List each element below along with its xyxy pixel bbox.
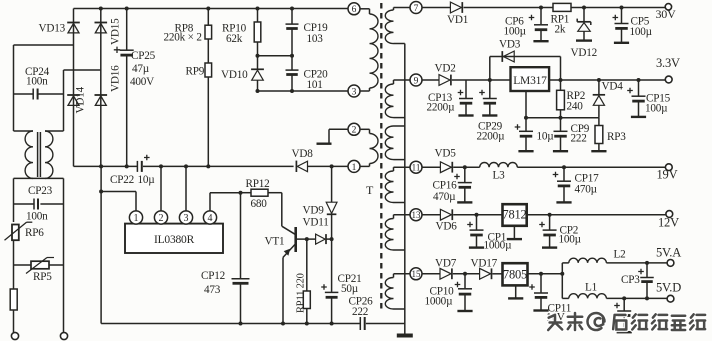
capacitor CP11 <box>539 272 543 276</box>
svg-text:CP22: CP22 <box>110 174 134 186</box>
capacitor CP20 <box>286 69 299 71</box>
svg-text:LM317: LM317 <box>513 75 547 87</box>
svg-text:100µ: 100µ <box>630 26 653 38</box>
svg-text:VD16: VD16 <box>110 65 122 92</box>
svg-text:1: 1 <box>352 163 357 173</box>
node pin 9 <box>410 74 422 86</box>
resistor RP3 <box>598 118 600 126</box>
wire pin4 riser to RP12 <box>209 193 211 212</box>
svg-text:RP3: RP3 <box>607 131 626 143</box>
svg-text:473: 473 <box>204 284 221 296</box>
wire DC- rail to primary ground <box>100 166 102 323</box>
wire VD6 to 7812 <box>453 214 502 216</box>
svg-text:220k × 2: 220k × 2 <box>164 32 202 44</box>
wire bridge right column <box>100 9 102 167</box>
capacitor CP2 <box>548 213 552 217</box>
capacitor CP26 Y-cap <box>359 317 361 330</box>
node pin 13 <box>410 209 422 221</box>
transformer primary winding 6-3 <box>360 8 370 10</box>
wire from live rail to bridge VD13/VD14 node <box>14 44 74 46</box>
wire VD5 to L3 <box>453 166 480 168</box>
node pin 3 <box>348 85 360 97</box>
secondary winding group 4 <box>394 166 411 168</box>
svg-text:CP3: CP3 <box>621 274 640 286</box>
svg-text:30V: 30V <box>656 7 677 21</box>
wire pin9 to LM317 input <box>422 79 439 81</box>
wire LM317 output <box>549 79 665 81</box>
svg-text:RP9: RP9 <box>186 66 205 78</box>
capacitor CP13 <box>465 80 467 98</box>
diode VD16 <box>95 94 108 96</box>
svg-text:1000µ: 1000µ <box>484 240 513 252</box>
wire VD1 to 30V terminal <box>464 7 667 9</box>
svg-text:5V.A: 5V.A <box>656 246 681 260</box>
inductor L3 <box>480 162 518 167</box>
terminal 30V output <box>665 4 671 10</box>
svg-text:680: 680 <box>251 198 268 210</box>
terminal 3.3V output <box>665 76 672 83</box>
svg-text:100µ: 100µ <box>504 26 527 38</box>
wire 7805 output <box>528 273 562 275</box>
svg-text:CP23: CP23 <box>28 185 53 197</box>
svg-text:100µ: 100µ <box>645 103 668 115</box>
svg-text:VD5: VD5 <box>435 148 457 160</box>
node pin 6 <box>348 3 360 15</box>
svg-text:103: 103 <box>307 33 324 45</box>
svg-text:2: 2 <box>352 126 357 136</box>
capacitor CP17 <box>562 165 566 169</box>
wire output split node <box>561 263 563 299</box>
svg-text:240: 240 <box>567 101 584 113</box>
terminal AC input left <box>11 332 18 339</box>
terminal 19V output <box>665 164 672 171</box>
resistor RP2 <box>560 80 562 90</box>
capacitor CP16 <box>463 165 467 169</box>
svg-text:RP12: RP12 <box>246 178 270 190</box>
svg-text:VD10: VD10 <box>221 69 248 81</box>
secondary winding group 5 <box>394 214 411 216</box>
op-amp U3 regulator 7805 <box>503 263 528 285</box>
diode VD14 <box>67 94 80 96</box>
svg-text:2200µ: 2200µ <box>427 101 456 113</box>
svg-text:47µ: 47µ <box>132 63 150 75</box>
svg-text:VD4: VD4 <box>602 81 624 93</box>
svg-text:50µ: 50µ <box>341 283 359 295</box>
svg-text:1: 1 <box>134 213 139 224</box>
terminal 12V output <box>666 211 673 218</box>
svg-text:11: 11 <box>412 163 421 173</box>
resistor RP8 <box>207 9 209 26</box>
wire CP22 rail to IC pin2/pin3 risers <box>159 164 163 168</box>
capacitor CP22 <box>136 161 138 172</box>
transformer core dashed line <box>380 3 382 310</box>
capacitor CP25 bulk electrolytic <box>126 9 128 50</box>
capacitor CP6 <box>539 6 543 10</box>
svg-text:VD15: VD15 <box>110 18 122 45</box>
resistor RP1 <box>553 3 571 11</box>
svg-text:VD13: VD13 <box>39 23 66 35</box>
svg-text:400V: 400V <box>130 76 154 88</box>
svg-text:VD7: VD7 <box>435 258 457 270</box>
diode VD15 <box>95 22 108 24</box>
svg-text:7: 7 <box>414 4 419 14</box>
wire AC neutral rail upper vertical <box>63 70 65 131</box>
varistor RP6 in left rail <box>12 225 19 241</box>
wire AC live rail upper-left vertical <box>13 45 15 131</box>
svg-text:10µ: 10µ <box>537 131 555 143</box>
resistor RP11 <box>305 237 309 241</box>
terminal AC input right <box>60 332 67 339</box>
svg-text:100n: 100n <box>26 76 48 88</box>
node pin 7 <box>410 2 422 14</box>
diode VD11 <box>316 234 326 244</box>
wire RP10-CP19 junction <box>258 55 293 57</box>
node IC pin 3 <box>179 211 192 224</box>
svg-text:3: 3 <box>184 213 189 224</box>
svg-text:13: 13 <box>412 210 422 220</box>
svg-text:3.3V: 3.3V <box>656 56 680 70</box>
secondary winding group 1 <box>394 7 411 9</box>
secondary winding group 2 <box>394 79 411 81</box>
wire secondary common bus <box>404 44 406 324</box>
wire 7812 output <box>527 214 666 216</box>
terminal 5V.A output <box>667 260 674 267</box>
diode VD13 <box>67 22 80 24</box>
node IC pin 4 <box>203 211 216 224</box>
wire pin11 to VD5 <box>422 166 441 168</box>
transistor Q1 VT1 <box>281 193 283 227</box>
wire from neutral rail to bridge VD15/VD16 node <box>64 69 101 71</box>
resistor RP12 <box>241 192 252 194</box>
svg-text:CP16: CP16 <box>433 180 458 192</box>
diode VD8 startup <box>295 161 297 172</box>
svg-text:CP12: CP12 <box>201 270 225 282</box>
capacitor CP23 across line <box>14 203 35 205</box>
node pin 1 <box>348 160 360 172</box>
svg-text:VD2: VD2 <box>435 63 456 75</box>
secondary winding group 6 <box>394 273 411 275</box>
svg-text:2k: 2k <box>555 24 566 36</box>
capacitor CP21 <box>331 239 333 292</box>
diode VD5 <box>440 162 451 173</box>
node IC pin 1 <box>129 211 142 224</box>
svg-text:222: 222 <box>352 306 368 318</box>
transformer aux winding 2-1 <box>329 128 348 130</box>
svg-text:222: 222 <box>571 133 587 145</box>
svg-text:101: 101 <box>307 79 323 91</box>
inductor L2 <box>562 262 569 264</box>
svg-text:VD6: VD6 <box>436 221 458 233</box>
svg-text:9: 9 <box>414 76 419 86</box>
wire pin13 to VD6 <box>422 214 441 216</box>
wire L3 to 19V terminal <box>517 166 665 168</box>
svg-text:100n: 100n <box>26 211 48 223</box>
svg-text:CP25: CP25 <box>131 50 156 62</box>
diode VD2 <box>439 75 450 86</box>
diode VD1 <box>450 2 461 13</box>
svg-text:VD3: VD3 <box>499 39 521 51</box>
diode VD17 <box>480 268 491 279</box>
op-amp U4 controller IL0380R <box>125 224 223 253</box>
wire bridge left column <box>73 9 75 167</box>
svg-text:15: 15 <box>412 269 422 279</box>
node pin 2 <box>348 123 360 135</box>
diode VD4 <box>597 78 601 82</box>
capacitor CP12 <box>239 191 243 195</box>
wire 30V row <box>422 7 451 9</box>
capacitor CP24 across AC line <box>14 93 34 95</box>
zener diode VD12 <box>582 6 586 10</box>
svg-text:7805: 7805 <box>503 267 527 281</box>
svg-text:IL0380R: IL0380R <box>154 234 195 246</box>
svg-text:VD11: VD11 <box>303 217 329 229</box>
svg-text:L2: L2 <box>614 249 626 261</box>
svg-text:2: 2 <box>159 213 164 224</box>
resistor RP5 across line <box>13 240 15 265</box>
op-amp U2 regulator 7812 <box>503 204 527 226</box>
resistor RP10 <box>257 9 259 23</box>
terminal 5V.D output <box>667 295 674 302</box>
capacitor CP5 <box>620 6 624 10</box>
svg-text:VD12: VD12 <box>571 47 598 59</box>
svg-text:7812: 7812 <box>502 208 526 222</box>
svg-text:RP6: RP6 <box>25 227 44 239</box>
common-mode choke right winding <box>45 130 64 132</box>
ground symbol secondary common <box>404 324 406 335</box>
capacitor CP15 <box>637 78 641 82</box>
capacitor CP10 <box>463 272 467 276</box>
svg-text:VD17: VD17 <box>471 258 498 270</box>
wire pin15 to VD7 <box>422 273 440 275</box>
svg-text:RP5: RP5 <box>33 271 52 283</box>
common-mode choke left winding <box>14 130 34 132</box>
wire DC+ top rail <box>74 8 349 10</box>
svg-text:5V.D: 5V.D <box>656 281 681 295</box>
svg-text:VD1: VD1 <box>447 14 468 26</box>
node pin 11 <box>410 161 422 173</box>
diode VD10 <box>257 56 259 69</box>
svg-text:470µ: 470µ <box>433 191 456 203</box>
capacitor CP19 <box>291 9 293 24</box>
wire VD7 to VD17 <box>453 273 480 275</box>
secondary winding group 3 <box>394 125 405 127</box>
svg-text:3: 3 <box>352 87 357 97</box>
capacitor CP9 <box>560 118 562 131</box>
svg-text:4: 4 <box>208 213 213 224</box>
capacitor CP3 <box>645 261 649 265</box>
diode VD6 <box>440 209 451 220</box>
svg-text:62k: 62k <box>226 33 243 45</box>
capacitor CP1 <box>475 213 479 217</box>
svg-text:VD8: VD8 <box>292 148 314 160</box>
junction bridge - node <box>99 164 103 168</box>
diode VD3 across regulator <box>489 57 491 81</box>
node IC pin 2 <box>154 211 167 224</box>
svg-text:VD14: VD14 <box>75 86 87 113</box>
wire 7805 ground pin <box>515 285 517 297</box>
wire primary ground rail <box>101 323 360 325</box>
wire snubber return to pin 3 <box>258 90 349 92</box>
op-amp U1 regulator LM317 <box>511 67 550 91</box>
svg-text:100µ: 100µ <box>559 234 582 246</box>
resistor RP9 <box>207 39 209 63</box>
inductor L1 <box>562 297 569 299</box>
svg-text:470µ: 470µ <box>575 184 598 196</box>
svg-text:L1: L1 <box>585 282 597 294</box>
svg-text:1000µ: 1000µ <box>425 296 454 308</box>
wire 7812 ground pin <box>513 225 515 239</box>
watermark toutiao <box>548 313 705 330</box>
svg-text:10µ: 10µ <box>138 174 156 186</box>
svg-text:VT1: VT1 <box>265 236 285 248</box>
svg-text:19V: 19V <box>657 168 678 182</box>
diode VD7 <box>440 268 451 279</box>
svg-text:12V: 12V <box>658 216 679 230</box>
wire pin1 riser <box>135 192 137 212</box>
capacitor CP29 <box>488 78 492 82</box>
wire primary negative rail with CP22 <box>74 165 138 167</box>
svg-text:2200µ: 2200µ <box>477 131 506 143</box>
node pin 15 <box>410 268 422 280</box>
svg-text:VD9: VD9 <box>303 205 325 217</box>
fuse in left rail <box>13 265 15 289</box>
junction bridge + nodes <box>99 7 103 11</box>
capacitor 10u on adjust <box>525 118 527 131</box>
svg-text:RP11 220: RP11 220 <box>296 273 307 313</box>
capacitor on 5V.D rail <box>622 296 626 300</box>
svg-text:6: 6 <box>352 5 357 15</box>
wire VD17 to 7805 <box>492 273 502 275</box>
common-mode choke core bars <box>37 132 39 177</box>
svg-text:L3: L3 <box>493 170 506 182</box>
diode VD9 <box>330 164 334 168</box>
svg-text:T: T <box>366 183 374 197</box>
wire LM317 adjust <box>525 91 527 118</box>
